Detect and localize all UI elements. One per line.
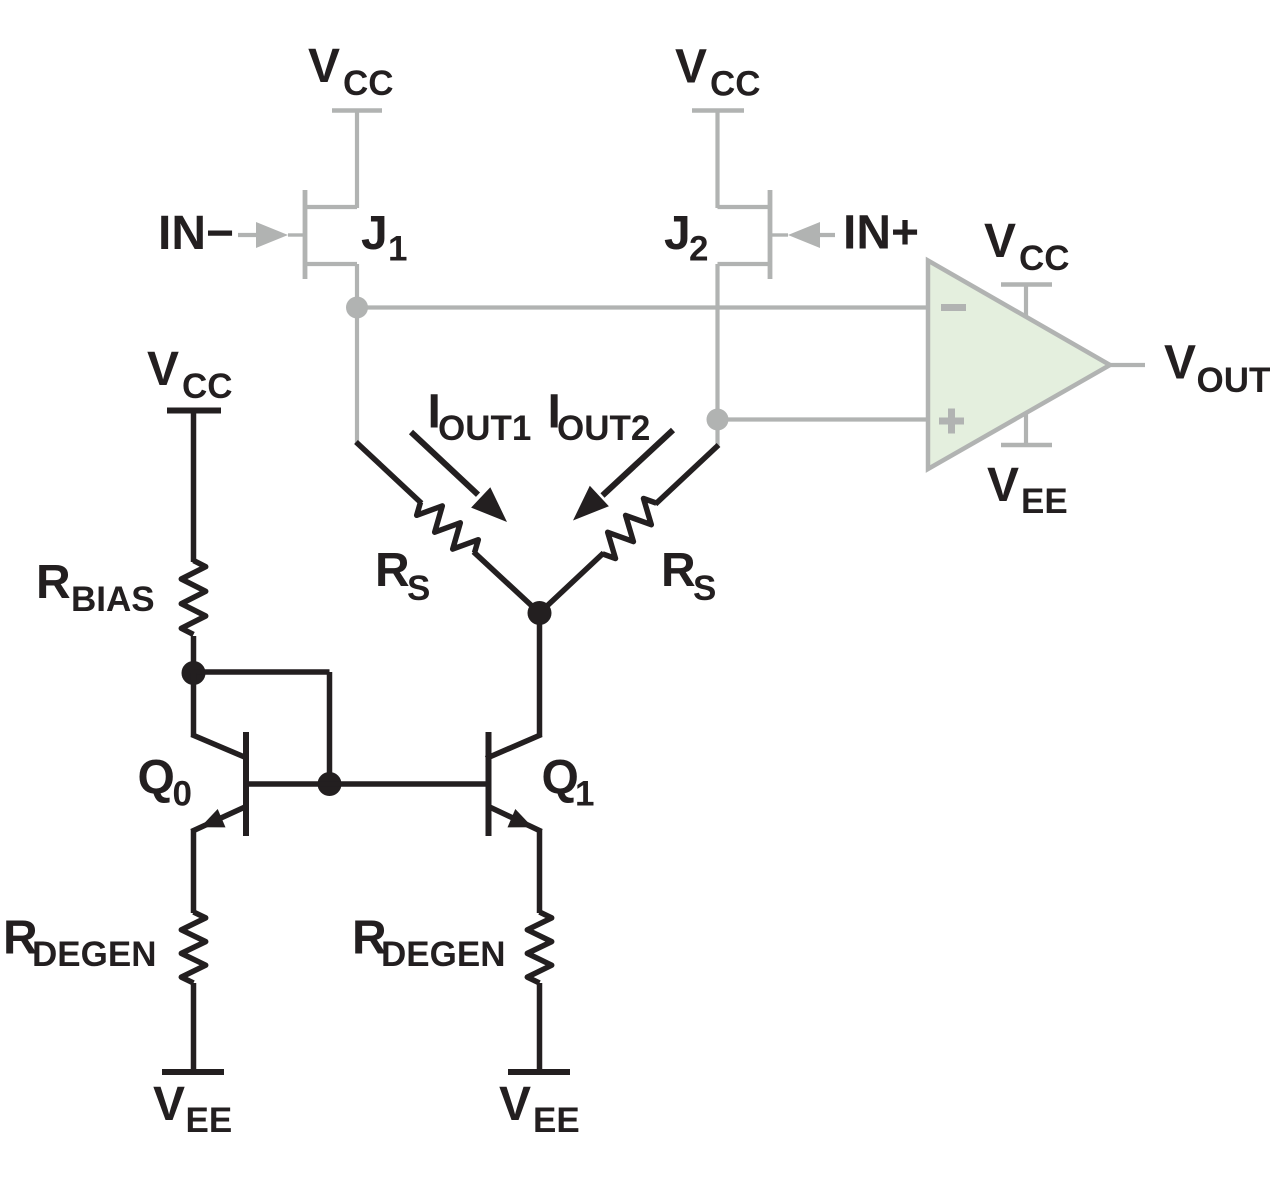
power VCC (bias supply) — [167, 411, 221, 563]
svg-text:BIAS: BIAS — [71, 580, 155, 619]
resistor RDEGEN (left) — [181, 912, 205, 983]
svg-text:R: R — [36, 556, 71, 609]
svg-text:CC: CC — [343, 64, 394, 103]
label VCC (op-amp) — [984, 215, 1070, 278]
label VEE (left) — [153, 1078, 232, 1140]
svg-text:V: V — [499, 1078, 531, 1131]
svg-text:V: V — [147, 343, 179, 396]
resistor RS (right) with wires — [540, 445, 719, 613]
wire RBIAS to node — [191, 636, 197, 676]
svg-text:DEGEN: DEGEN — [381, 935, 505, 974]
svg-text:R: R — [661, 544, 696, 597]
wire J1 node down to left RS — [355, 308, 359, 445]
label IOUT1 — [428, 386, 532, 449]
svg-text:R: R — [375, 544, 410, 597]
svg-text:S: S — [693, 569, 716, 608]
wire J1 source to op-amp inverting input — [357, 305, 930, 309]
IN- gate arrow — [238, 222, 303, 248]
svg-text:V: V — [1164, 337, 1196, 390]
label Q0 — [138, 752, 192, 814]
svg-text:V: V — [153, 1078, 185, 1131]
label VCC (bias) — [147, 343, 233, 406]
svg-text:V: V — [984, 215, 1016, 268]
label J2 — [664, 207, 708, 269]
node RS junction — [528, 601, 552, 625]
wire RDEGEN right to VEE — [537, 983, 543, 1072]
svg-text:CC: CC — [182, 367, 233, 406]
wire base Q0 to base Q1 — [246, 781, 489, 787]
label RBIAS — [36, 556, 155, 619]
transistor Q1 — [486, 611, 542, 913]
op-amp U1 — [928, 261, 1110, 470]
svg-text:J: J — [664, 207, 691, 260]
op-amp VEE supply pin — [1001, 412, 1052, 445]
svg-text:V: V — [675, 41, 707, 94]
svg-text:EE: EE — [186, 1101, 233, 1140]
current arrow IOUT2 — [573, 430, 673, 521]
op-amp plus input symbol — [939, 409, 964, 434]
wire op-amp output — [1110, 363, 1145, 367]
svg-text:OUT2: OUT2 — [557, 409, 650, 448]
op-amp VCC supply pin — [1001, 285, 1052, 319]
svg-text:1: 1 — [575, 775, 594, 814]
svg-text:J: J — [361, 207, 388, 260]
transistor Q0 — [192, 673, 249, 913]
label VOUT — [1164, 337, 1270, 401]
wire RDEGEN left to VEE — [191, 983, 197, 1072]
node RBIAS / Q0 collector — [182, 661, 206, 685]
power VEE (right) — [508, 1069, 570, 1075]
node base junction — [318, 772, 342, 796]
IN+ gate arrow — [772, 222, 835, 248]
svg-text:1: 1 — [388, 230, 407, 269]
label VEE (op-amp) — [987, 459, 1068, 521]
wire diode connection horizontal — [194, 669, 330, 675]
JFET J1 — [303, 190, 357, 308]
resistor RDEGEN (right) — [527, 912, 551, 983]
label VCC (J1) — [308, 40, 394, 103]
node J1 source junction — [346, 297, 368, 319]
resistor RBIAS — [181, 561, 205, 635]
label J1 — [361, 207, 407, 269]
resistor RS (left) with wires — [356, 442, 540, 613]
svg-text:OUT1: OUT1 — [438, 409, 531, 448]
svg-text:EE: EE — [1021, 482, 1068, 521]
label IOUT2 — [548, 386, 651, 449]
wire diode connection vertical — [327, 672, 333, 784]
label RS (left) — [375, 544, 430, 608]
svg-text:V: V — [308, 40, 340, 93]
svg-text:S: S — [407, 569, 430, 608]
svg-text:Q: Q — [542, 752, 579, 805]
svg-text:IN+: IN+ — [843, 207, 919, 260]
svg-text:OUT: OUT — [1197, 361, 1271, 400]
svg-text:IN−: IN− — [158, 207, 234, 260]
svg-text:0: 0 — [173, 775, 192, 814]
JFET J2 — [718, 190, 773, 420]
wire J2 node down to right RS — [715, 420, 719, 448]
label RDEGEN (left) — [3, 912, 156, 975]
power VCC (J1 drain supply) — [332, 111, 382, 209]
current arrow IOUT1 — [411, 432, 507, 522]
svg-text:Q: Q — [138, 752, 175, 805]
svg-text:2: 2 — [689, 230, 708, 269]
label Q1 — [542, 752, 595, 814]
svg-text:V: V — [987, 459, 1019, 512]
power VCC (J2 drain supply) — [692, 111, 744, 209]
svg-text:DEGEN: DEGEN — [32, 935, 156, 974]
power VEE (left) — [162, 1069, 224, 1075]
svg-text:CC: CC — [1019, 239, 1070, 278]
label VEE (right) — [499, 1078, 580, 1140]
label RS (right) — [661, 544, 716, 608]
label VCC (J2) — [675, 41, 761, 104]
svg-text:CC: CC — [710, 65, 761, 104]
svg-text:EE: EE — [533, 1101, 580, 1140]
wire J2 source to op-amp noninverting input — [718, 417, 931, 421]
node J2 source junction — [707, 409, 729, 431]
op-amp minus input symbol — [941, 304, 966, 311]
label RDEGEN (right) — [352, 912, 505, 975]
